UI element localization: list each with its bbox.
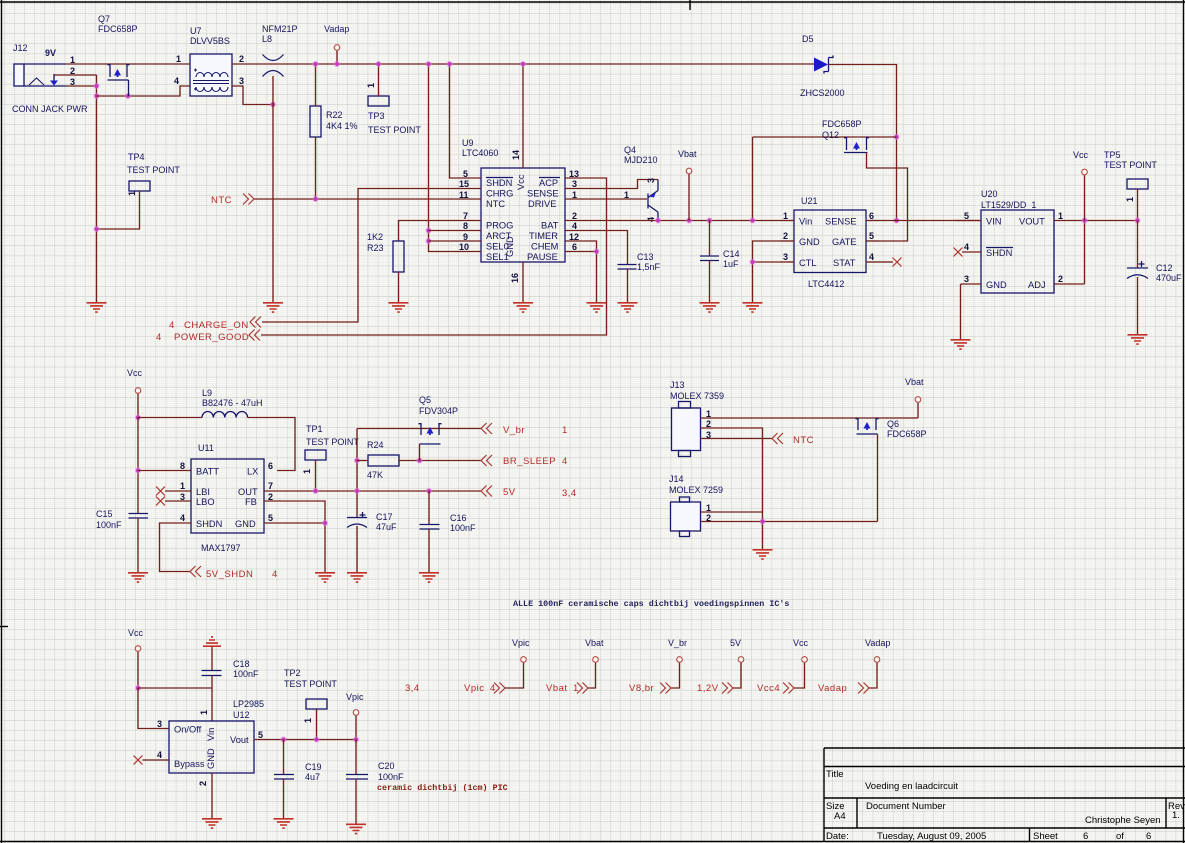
wire V_br branch vertical [356, 429, 358, 518]
svg-text:Vcc: Vcc [1073, 150, 1089, 160]
wire TIMER pin4 to C13 [591, 231, 628, 265]
NTC chevrons [243, 194, 254, 205]
svg-text:5: 5 [463, 169, 468, 179]
wire J13 pin1 to Q6 [701, 417, 919, 419]
U9 pin 6 stub [565, 251, 591, 253]
svg-text:GND: GND [505, 236, 515, 257]
U20 pin 4 stub [962, 251, 981, 253]
U20 pin 5 stub [955, 220, 981, 222]
svg-text:4u7: 4u7 [305, 772, 320, 782]
node FB/GND junction [322, 520, 328, 526]
connector J13 [672, 402, 701, 457]
svg-text:4: 4 [169, 320, 175, 331]
svg-text:MJD210: MJD210 [624, 155, 658, 165]
R22 top lead [315, 64, 317, 106]
svg-text:Sheet: Sheet [1033, 831, 1058, 842]
TP5 stem [1137, 189, 1139, 221]
no-ERC marker on SHDN [954, 248, 963, 257]
svg-text:MOLEX 7259: MOLEX 7259 [669, 485, 723, 495]
svg-text:LBI: LBI [196, 487, 210, 497]
Q6 arrow [864, 422, 871, 430]
svg-text:Q5: Q5 [419, 395, 431, 405]
node BATT junction [135, 467, 141, 473]
svg-text:100nF: 100nF [378, 772, 404, 782]
wire V_br port [671, 663, 680, 688]
C18 top lead [211, 647, 213, 671]
U21 pin 5 stub [866, 240, 879, 242]
svg-text:4: 4 [646, 217, 656, 222]
U11 LBO wire [165, 500, 191, 502]
svg-text:VOUT: VOUT [1019, 217, 1045, 227]
svg-text:15: 15 [459, 179, 469, 189]
svg-text:PAUSE: PAUSE [527, 252, 558, 262]
Vpic stem [355, 716, 357, 740]
svg-text:CHARGE_ON: CHARGE_ON [184, 320, 249, 331]
node C20 junction [353, 736, 359, 742]
svg-text:Date:: Date: [826, 831, 849, 842]
svg-text:1: 1 [366, 83, 376, 88]
svg-text:CTL: CTL [799, 258, 817, 268]
svg-text:MOLEX 7359: MOLEX 7359 [670, 391, 724, 401]
ground under U20 [951, 340, 971, 349]
svg-text:TP4: TP4 [128, 152, 145, 162]
svg-text:LBO: LBO [196, 497, 215, 507]
ground under C15 [128, 573, 148, 582]
svg-text:DRIVE: DRIVE [528, 199, 556, 209]
wire TP4 to J12 net [97, 191, 140, 229]
wire POWER_GOOD to U9 pin13 [261, 178, 607, 335]
svg-text:8: 8 [463, 221, 468, 231]
svg-text:C14: C14 [723, 249, 740, 259]
wire U20 GND to ground [960, 284, 962, 339]
svg-text:FDC658P: FDC658P [887, 429, 927, 439]
svg-text:6: 6 [1146, 831, 1151, 842]
wire SENSE pin3 to Q4 emitter [591, 180, 658, 189]
wire BR_SLEEP line [399, 460, 481, 462]
CHARGE_ON chevrons [250, 317, 261, 328]
svg-text:1,2V: 1,2V [697, 683, 719, 694]
regulator U20 body [981, 210, 1054, 293]
wire gate rail y96 [97, 86, 191, 96]
svg-text:Vcc: Vcc [128, 628, 144, 638]
wire SENSE rail to U20 VIN [879, 220, 981, 222]
svg-text:J14: J14 [669, 474, 684, 484]
wire 5V port [733, 663, 741, 688]
resistor R22 [310, 106, 321, 137]
svg-text:5: 5 [964, 211, 969, 221]
U9 pin 3 stub [565, 188, 591, 190]
TP3 stem [378, 64, 380, 96]
svg-text:4: 4 [964, 242, 969, 252]
svg-text:BAT: BAT [541, 221, 559, 231]
U9 pin 2 stub [565, 220, 591, 222]
svg-text:5: 5 [258, 730, 263, 740]
svg-text:Q12: Q12 [822, 130, 839, 140]
svg-text:C13: C13 [637, 252, 654, 262]
wire J13 pin3 NTC [701, 438, 773, 440]
node Vcc branch junction [135, 685, 141, 691]
svg-text:3: 3 [646, 178, 656, 183]
no-ERC marker Bypass [134, 756, 143, 765]
transistor Q12 [844, 137, 869, 153]
svg-text:R23: R23 [367, 243, 384, 253]
svg-text:Vcc4: Vcc4 [757, 683, 780, 694]
transistor Q4 [648, 180, 658, 221]
svg-text:TEST POINT: TEST POINT [368, 125, 421, 135]
no-ERC marker LBO [156, 497, 165, 506]
svg-text:U12: U12 [233, 710, 250, 720]
svg-text:TP1: TP1 [306, 424, 323, 434]
power port Vbat middle [915, 397, 921, 403]
svg-text:V_br: V_br [503, 425, 525, 436]
Vadap stem [336, 51, 338, 64]
C16 top lead [428, 491, 430, 525]
svg-text:Vpic: Vpic [346, 692, 364, 702]
wire OUT rail [264, 490, 481, 492]
U9 pin 11 stub [455, 198, 481, 200]
svg-text:On/Off: On/Off [174, 725, 202, 735]
5V chevrons [481, 486, 492, 497]
svg-text:16: 16 [510, 273, 520, 283]
power port Vbat [593, 657, 599, 663]
svg-text:3: 3 [783, 252, 788, 262]
svg-text:C20: C20 [378, 761, 395, 771]
ground under C16 [419, 573, 439, 582]
svg-text:CHRG: CHRG [486, 189, 513, 199]
Vbat stem [917, 403, 919, 418]
svg-text:2: 2 [783, 231, 788, 241]
C14 top lead [709, 221, 711, 257]
node D5 sense junction [893, 217, 899, 223]
svg-text:12: 12 [569, 232, 579, 242]
Vcc stem [137, 652, 139, 688]
transistor Q5 [419, 423, 442, 444]
svg-text:1K2: 1K2 [367, 232, 383, 242]
ground under J12 [87, 303, 107, 312]
U9 pin 13 stub [565, 177, 591, 179]
node C14 junction [706, 217, 712, 223]
svg-text:Vcc: Vcc [516, 174, 526, 190]
svg-text:3,4: 3,4 [562, 488, 577, 499]
test point TP1 [305, 450, 326, 460]
node CTL junction [749, 259, 755, 265]
Q12 arrow [853, 142, 860, 150]
U21 pin 1 stub [780, 220, 794, 222]
svg-text:1: 1 [572, 190, 577, 200]
svg-text:SENSE: SENSE [825, 217, 857, 227]
no-ERC marker on STAT [893, 258, 902, 267]
svg-text:LTC4060: LTC4060 [462, 148, 498, 158]
svg-text:11: 11 [459, 190, 469, 200]
transistor Q6 [856, 418, 879, 434]
TP1 stem [315, 460, 317, 491]
wire GND pin5 [264, 523, 325, 572]
svg-text:Vbat: Vbat [678, 149, 697, 159]
svg-text:V_br: V_br [668, 638, 687, 648]
svg-text:C19: C19 [305, 762, 322, 772]
wire NTC to U9 pin11 [255, 198, 456, 200]
U9 pin 4 stub [565, 230, 591, 232]
svg-text:A4: A4 [834, 811, 846, 822]
svg-text:FB: FB [245, 497, 257, 507]
R22 bottom lead [315, 137, 317, 199]
U9 pin 7 stub [455, 220, 481, 222]
wire Vadap port [869, 663, 877, 688]
svg-text:ALLE 100nF ceramische caps dic: ALLE 100nF ceramische caps dichtbij voed… [513, 599, 789, 609]
Vpic chevrons [494, 683, 505, 694]
svg-text:ACP: ACP [539, 178, 558, 188]
svg-text:LT1529/DD_1: LT1529/DD_1 [981, 200, 1036, 210]
wire Q12 bypass rail [753, 137, 897, 221]
U9 pin 1 stub [565, 198, 591, 200]
wire U7 pin2 rail to D5 [232, 63, 814, 65]
svg-text:BATT: BATT [196, 467, 219, 477]
wire U7 pin3 down [232, 86, 273, 105]
wire U9 pin16 to ground [522, 262, 524, 302]
U21 pin 3 stub [780, 261, 794, 263]
svg-text:B82476 - 47uH: B82476 - 47uH [202, 398, 263, 408]
node Q12 source to BAT rail junction [749, 217, 755, 223]
node SHDN rail junction [446, 61, 452, 67]
svg-text:POWER_GOOD: POWER_GOOD [174, 332, 249, 343]
U20 pin 3 stub [961, 283, 982, 285]
svg-text:Vin: Vin [206, 728, 216, 741]
svg-text:2: 2 [239, 54, 244, 64]
C16 bottom lead [428, 529, 430, 572]
ground under C12 [1128, 335, 1148, 344]
svg-text:TEST POINT: TEST POINT [306, 437, 359, 447]
node CHEM/PAUSE junction [593, 248, 599, 254]
power port Vcc top right [1082, 169, 1088, 175]
ground under C17 [347, 573, 367, 582]
C17 plus sign [360, 512, 366, 518]
node Q5 gate junction [416, 457, 422, 463]
converter U11 body [191, 459, 264, 533]
U9 pin 10 stub [455, 251, 481, 253]
BR_SLEEP chevrons [481, 455, 492, 466]
svg-text:R24: R24 [367, 440, 384, 450]
svg-text:Vpic: Vpic [464, 683, 484, 694]
5V chevrons [722, 683, 733, 694]
svg-text:U11: U11 [198, 443, 214, 453]
ground under U9 [513, 303, 533, 312]
node L9 junction [135, 414, 141, 420]
node SEL0 junction [425, 238, 431, 244]
svg-text:3: 3 [572, 179, 577, 189]
wire L9 to LX [248, 418, 296, 471]
ground under C14 [700, 303, 720, 312]
svg-text:3: 3 [239, 76, 244, 86]
svg-text:1: 1 [303, 718, 313, 723]
border tick left [0, 626, 8, 628]
svg-text:Tuesday, August 09, 2005: Tuesday, August 09, 2005 [877, 831, 986, 842]
node TP5/C12 junction [1134, 217, 1140, 223]
U11 LBI wire [165, 490, 191, 492]
C20 top lead [355, 740, 357, 775]
wire U9 pin14 to rail [522, 64, 524, 168]
svg-text:3: 3 [964, 274, 969, 284]
U20 pin 1 stub [1054, 220, 1080, 222]
wire VOUT rail [1080, 220, 1138, 222]
transformer U7 [190, 54, 232, 96]
svg-text:NTC: NTC [486, 199, 505, 209]
wire Vout rail [254, 739, 356, 741]
svg-text:LP2985: LP2985 [233, 699, 264, 709]
svg-text:1: 1 [127, 191, 137, 196]
svg-text:MAX1797: MAX1797 [201, 543, 241, 553]
C19 top lead [283, 740, 285, 775]
power port V_br [677, 657, 683, 663]
svg-text:FDC658P: FDC658P [822, 119, 862, 129]
svg-text:Vbat: Vbat [585, 638, 604, 648]
svg-text:Vadap: Vadap [865, 638, 890, 648]
border tick top [689, 0, 691, 10]
svg-text:Q7: Q7 [98, 14, 110, 24]
svg-text:Vcc: Vcc [793, 638, 809, 648]
Q5 gate wire [419, 444, 421, 461]
svg-text:Vout: Vout [230, 735, 249, 745]
svg-text:4K4 1%: 4K4 1% [326, 121, 358, 131]
svg-text:Vin: Vin [799, 217, 812, 227]
svg-text:1: 1 [562, 425, 568, 436]
wire Vcc to On/Off [138, 688, 169, 729]
title block frame [824, 748, 1185, 841]
wire U21 GND/CTL to ground [753, 241, 781, 302]
svg-text:3,4: 3,4 [405, 683, 420, 694]
power port Vadap [874, 657, 880, 663]
node TP4 junction [93, 226, 99, 232]
wire SHDN to 5V_SHDN label [160, 523, 192, 572]
svg-text:VIN: VIN [986, 217, 1002, 227]
svg-text:L9: L9 [202, 388, 212, 398]
wire J12 pin3 [66, 85, 97, 87]
svg-text:C15: C15 [96, 509, 113, 519]
inductor L9 [202, 412, 248, 418]
Vadap chevrons [858, 683, 869, 694]
node Q4 collector junction [655, 217, 661, 223]
svg-text:1.: 1. [1172, 810, 1180, 821]
C17 bottom lead [356, 526, 358, 572]
svg-text:1: 1 [1058, 211, 1063, 221]
capacitor C20 [346, 775, 368, 780]
U9 pin 8 stub [455, 230, 481, 232]
power port Vcc [802, 657, 808, 663]
svg-text:STAT: STAT [833, 258, 856, 268]
svg-text:C17: C17 [376, 512, 393, 522]
Q6 gate wire [877, 434, 879, 522]
power port Vcc middle [135, 388, 141, 394]
capacitor C13 [618, 265, 637, 270]
Vbat stem [688, 174, 690, 220]
Q7 arrow [114, 69, 121, 77]
svg-text:47K: 47K [367, 470, 383, 480]
C13 bottom lead [627, 269, 629, 302]
wire PAUSE pin6 to ground [591, 252, 597, 303]
ground under C13 [618, 303, 638, 312]
U12 Bypass wire [143, 759, 170, 761]
no-ERC marker LBI [156, 487, 165, 496]
U21 pin 2 stub [780, 240, 794, 242]
power port Vpic [521, 657, 527, 663]
node Vbat junction [686, 217, 692, 223]
svg-text:C18: C18 [233, 659, 250, 669]
U21 STAT no-connect wire [879, 261, 893, 263]
Vbat chevrons [577, 683, 588, 694]
wire FB to GND net [264, 501, 325, 523]
ground above C18 inverted [203, 637, 221, 646]
svg-text:U7: U7 [190, 26, 202, 36]
svg-text:R22: R22 [326, 110, 343, 120]
transistor Q7 [108, 64, 130, 96]
regulator U21 body [794, 210, 866, 273]
svg-text:5V: 5V [730, 638, 741, 648]
node SEL rail junction [425, 61, 431, 67]
svg-text:2: 2 [198, 781, 208, 786]
capacitor C18 [202, 671, 222, 676]
svg-text:2: 2 [572, 211, 577, 221]
test point TP5 [1127, 179, 1148, 189]
svg-text:FDV304P: FDV304P [419, 406, 458, 416]
U9 pin 12 stub [565, 240, 591, 242]
svg-text:10: 10 [459, 242, 469, 252]
wire PROG to R23 [399, 221, 456, 242]
node pin14 rail junction [520, 61, 526, 67]
test point TP3 [368, 96, 389, 106]
wire V_br line [357, 428, 481, 430]
svg-text:Vpic: Vpic [512, 638, 530, 648]
svg-text:14: 14 [511, 150, 521, 160]
capacitor C15 [129, 514, 149, 519]
svg-text:8: 8 [180, 461, 185, 471]
node Vadap junction [334, 61, 340, 67]
node TP2 junction [313, 736, 319, 742]
5V_SHDN chevrons [190, 566, 201, 577]
U9 pin 5 stub [455, 177, 481, 179]
wire vertical to TP4/ground [96, 75, 98, 302]
U9 pin 15 stub [455, 188, 481, 190]
svg-text:TP2: TP2 [284, 668, 301, 678]
wire Vcc port [794, 663, 805, 688]
svg-text:1: 1 [1125, 197, 1135, 202]
R24 left lead [357, 460, 368, 462]
U12 GND pin to ground [211, 773, 213, 818]
svg-text:4: 4 [157, 750, 162, 760]
test point TP2 [306, 699, 327, 709]
node J12-2/3 junction [93, 83, 99, 89]
svg-text:TEST POINT: TEST POINT [127, 165, 180, 175]
regulator U12 body [169, 721, 254, 773]
node C17 junction [354, 488, 360, 494]
node gate rail junction [93, 93, 99, 99]
svg-text:DLVV5BS: DLVV5BS [190, 36, 230, 46]
svg-text:NFM21P: NFM21P [262, 24, 298, 34]
ground under U12 [202, 819, 222, 828]
svg-text:1: 1 [624, 190, 629, 200]
connector J14 [671, 497, 701, 537]
wire ARCT pin8 [429, 230, 456, 232]
node NTC/R22 junction [312, 196, 318, 202]
svg-text:TEST POINT: TEST POINT [1104, 160, 1157, 170]
svg-text:SHDN: SHDN [196, 519, 222, 529]
svg-text:BR_SLEEP: BR_SLEEP [503, 456, 556, 467]
svg-text:L8: L8 [262, 34, 272, 44]
svg-text:1uF: 1uF [723, 259, 739, 269]
Q5 arrow [427, 427, 434, 435]
node J14 pin2 junction [759, 518, 765, 524]
svg-text:TEST POINT: TEST POINT [284, 679, 337, 689]
svg-text:J13: J13 [670, 380, 685, 390]
svg-text:Q6: Q6 [887, 419, 899, 429]
